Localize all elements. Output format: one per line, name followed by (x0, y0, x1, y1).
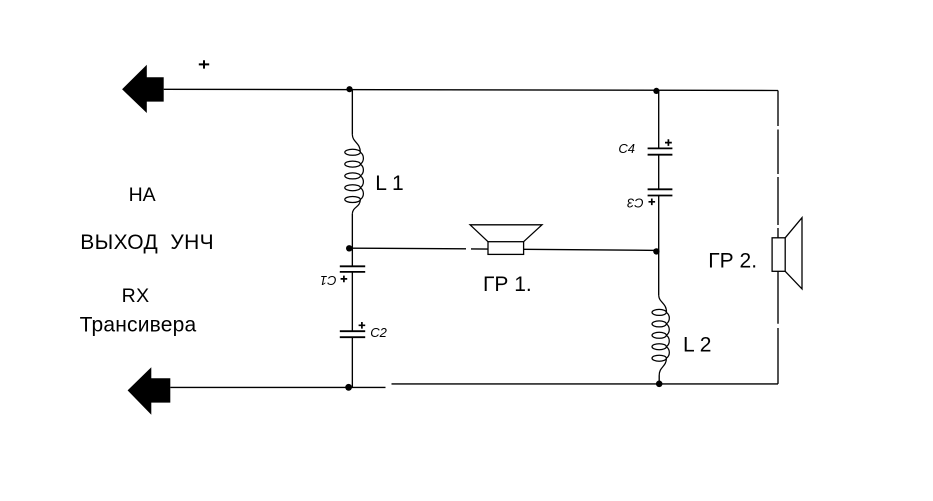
svg-text:C2: C2 (370, 325, 387, 340)
svg-text:L 1: L 1 (375, 172, 403, 195)
svg-text:C4: C4 (618, 141, 635, 156)
svg-text:ВЫХОД УНЧ: ВЫХОД УНЧ (80, 231, 214, 254)
svg-text:ГР 2.: ГР 2. (708, 249, 757, 272)
svg-text:C3: C3 (626, 195, 643, 210)
svg-text:Трансивера: Трансивера (80, 314, 197, 337)
svg-text:RX: RX (122, 285, 150, 307)
svg-text:НА: НА (129, 184, 156, 206)
svg-text:L 2: L 2 (683, 334, 711, 357)
svg-text:C1: C1 (320, 273, 337, 288)
svg-text:ГР 1.: ГР 1. (483, 273, 532, 296)
